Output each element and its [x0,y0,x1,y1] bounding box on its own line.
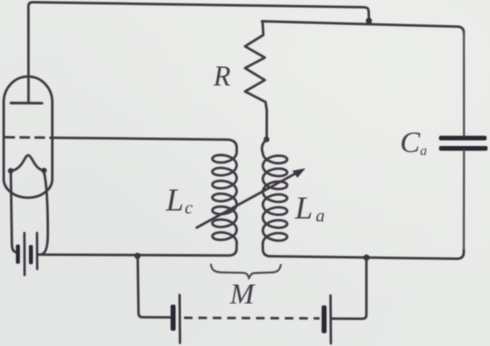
wire: bottom right run [263,243,464,258]
tube plate bar [11,102,42,105]
B battery right cell thin plate [329,296,332,344]
capacitor Ca top plate [439,136,487,141]
tube grid (dashed line) [5,136,51,139]
brace marking mutual inductance M [211,265,281,279]
wire: right riser upper [463,31,465,135]
tube filament arch [11,155,44,171]
junction dot where R meets La top [264,137,270,143]
filament lead dot left [8,168,14,174]
filament lead dot right [41,168,47,174]
svg-text:R: R [213,62,231,93]
wire: B battery right end up to bottom wire [332,258,366,319]
junction node dot (plate wire meets R-to-Ca wire) [366,18,372,24]
B battery right cell thick plate [322,305,327,333]
A battery thick plate 2 [29,245,33,264]
variable-coupling arrow shaft [197,173,296,227]
resistor R zigzag [245,21,267,136]
B battery left cell thin plate [178,295,181,343]
dashed link between B battery cells [184,317,320,320]
junction node dot (right B battery tap) [363,255,369,261]
A battery thin plate 1 [23,233,26,275]
B battery left cell thick plate [171,305,176,331]
arrow head [292,168,305,178]
tube envelope (capsule) [4,77,53,198]
A battery thin plate 2 [36,233,39,269]
junction node dot (left B battery tap) [134,253,140,259]
grid wire from tube to Lc top [51,138,237,153]
inductor Lc (grid coil) [38,152,236,255]
filament leg right down to bottom wire [42,172,48,254]
wire: resistor top across to right riser, down to capacitor [262,21,464,33]
filament leg left down to A battery hook [11,172,18,252]
wire: plate lead riser and top wire across to junction [28,2,369,102]
A battery thick plate 1 [16,245,20,264]
inductor La (plate tank coil) [262,139,287,243]
svg-text:M: M [229,279,256,311]
capacitor Ca bottom plate [439,146,488,151]
wire: right riser below capacitor to bottom wire and La bottom [463,151,465,253]
wire: left drop to B battery [138,256,170,317]
